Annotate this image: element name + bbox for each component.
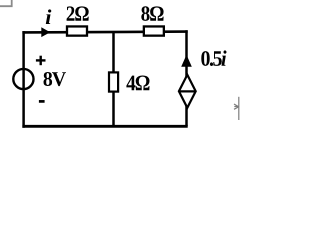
label i — [46, 9, 52, 24]
wire bottom horizontal — [22, 125, 187, 128]
label 8V — [44, 72, 67, 86]
stray gray cursor mark right — [234, 97, 239, 120]
label 8ohm — [141, 6, 163, 21]
diamond middle line — [179, 90, 196, 92]
current arrow i on top wire — [41, 27, 50, 37]
resistor R3 4ohm body — [109, 72, 118, 91]
label 4ohm — [126, 76, 149, 91]
wire left vertical — [22, 31, 25, 128]
resistor R2 8ohm body — [144, 26, 164, 35]
plus polarity mark — [36, 56, 46, 65]
label 0.5i — [201, 50, 226, 66]
arrow of dependent source pointing up — [181, 55, 192, 67]
wire top horizontal — [22, 30, 187, 33]
wire right vertical — [185, 30, 188, 126]
minus polarity mark — [39, 100, 45, 103]
label 2ohm — [67, 6, 89, 20]
wire middle vertical — [112, 32, 115, 126]
stray gray corner mark top-left — [0, 0, 12, 6]
voltage source V1 8V circle — [13, 69, 33, 89]
dependent current source diamond — [179, 75, 196, 108]
resistor R1 2ohm body — [67, 26, 87, 35]
